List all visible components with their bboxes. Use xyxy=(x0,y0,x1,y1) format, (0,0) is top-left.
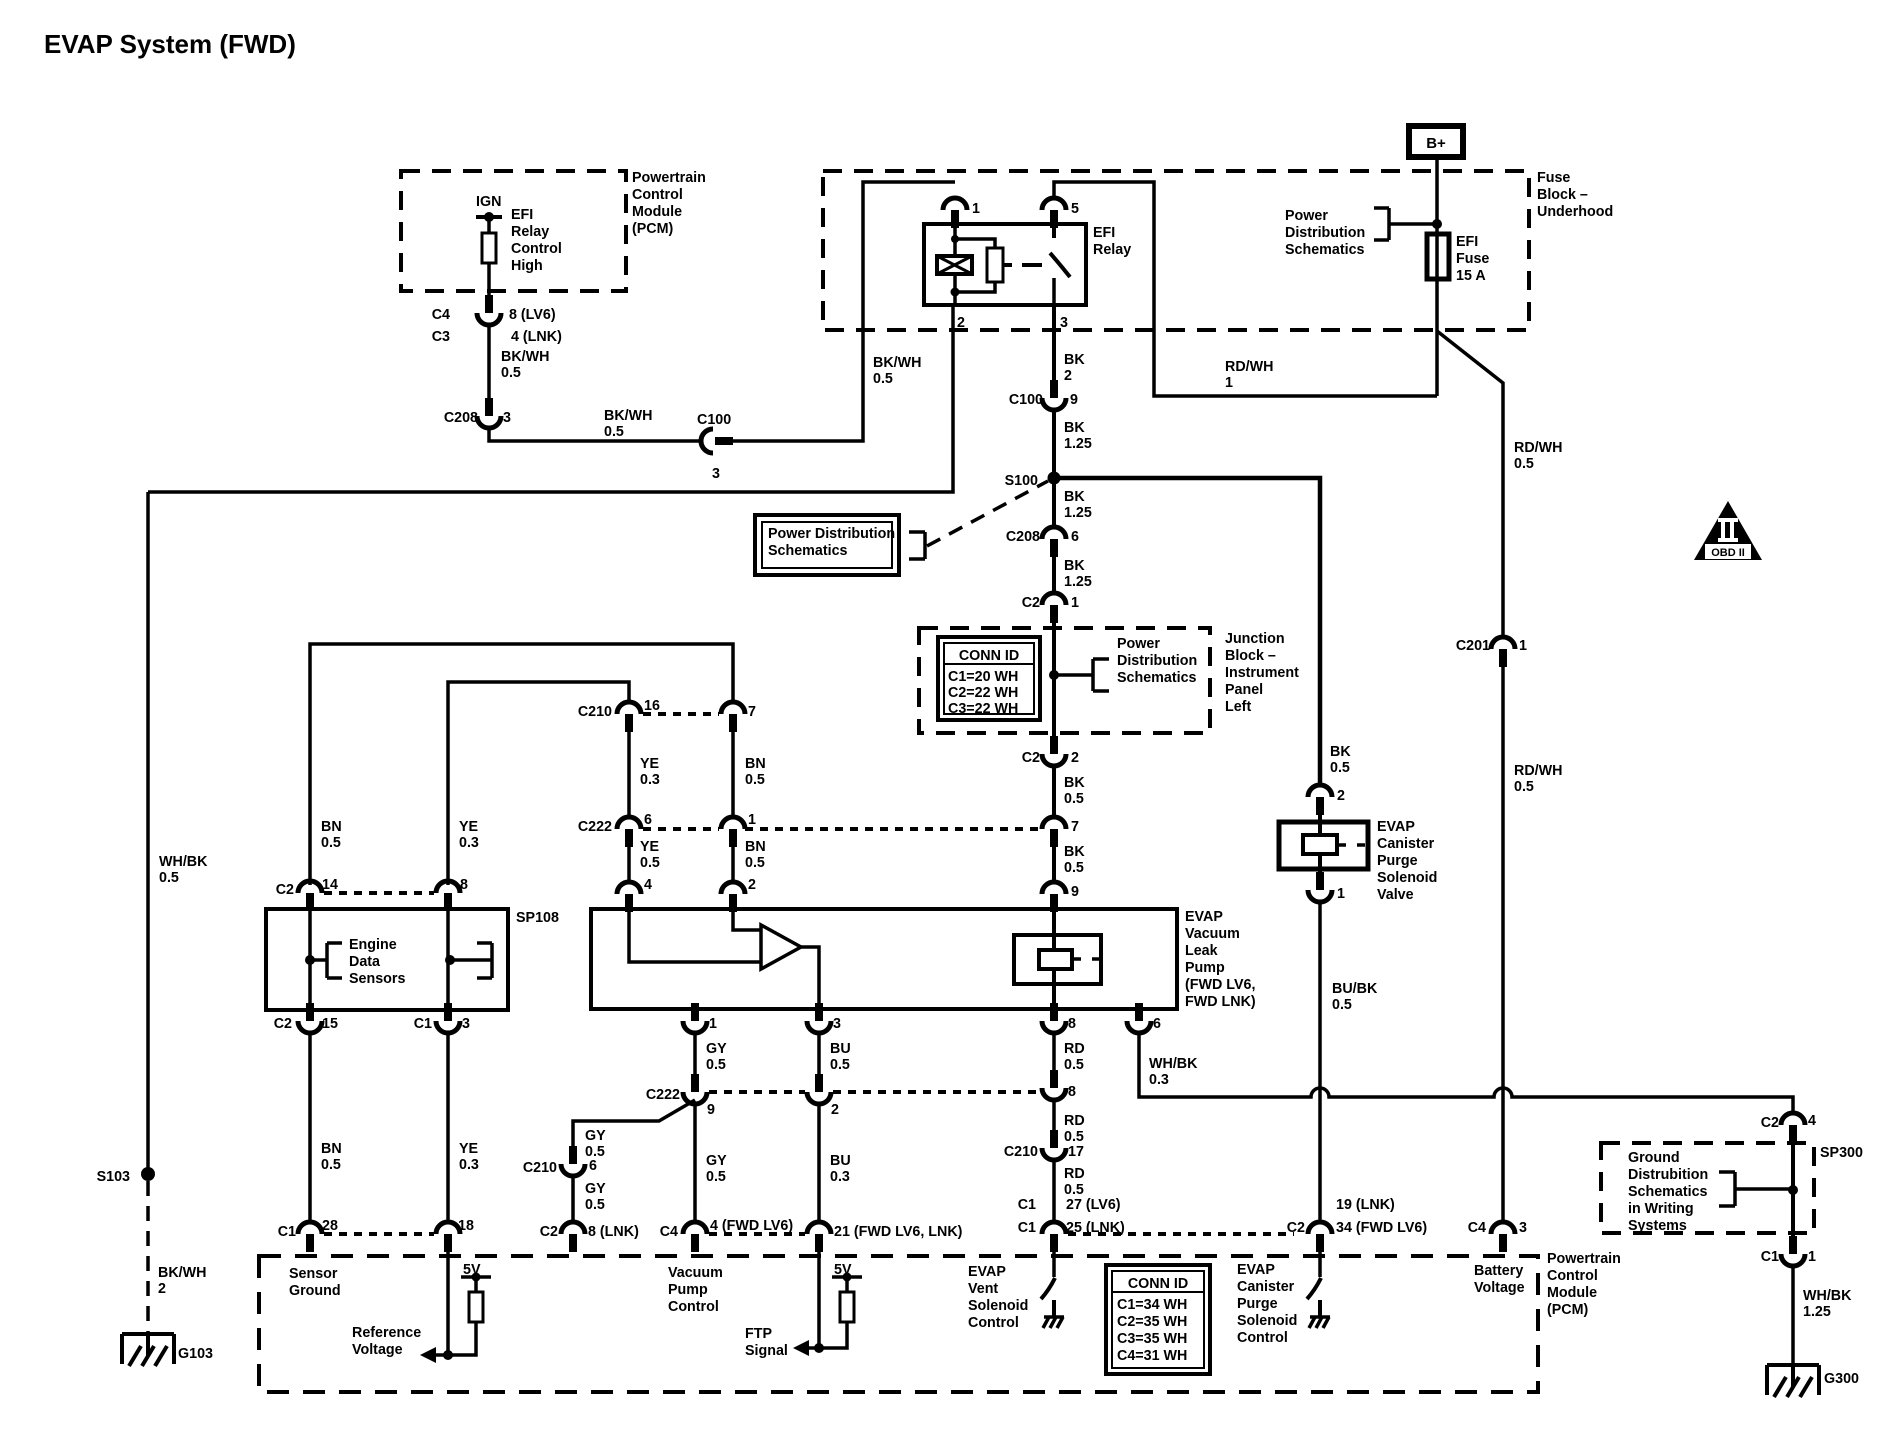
connector C2 pin 4 xyxy=(1781,1113,1805,1143)
svg-text:2: 2 xyxy=(748,877,756,893)
svg-text:GY0.5: GY0.5 xyxy=(706,1041,727,1073)
vent solenoid driver blade xyxy=(1041,1278,1055,1299)
vent solenoid driver ground xyxy=(1043,1300,1064,1328)
svg-text:4: 4 xyxy=(1808,1113,1816,1129)
svg-text:C2: C2 xyxy=(1022,595,1040,611)
wire amplifier out to pin 3 xyxy=(801,947,819,1003)
wire BN through box xyxy=(308,911,312,1003)
svg-text:C201: C201 xyxy=(1456,638,1490,654)
wire pin 2 to amplifier xyxy=(733,911,761,930)
wire pin 18 to reference voltage xyxy=(446,1252,450,1355)
arrow FTP signal xyxy=(793,1340,809,1356)
PCM (top-left) dashed box xyxy=(401,171,626,291)
svg-text:GY0.5: GY0.5 xyxy=(585,1181,606,1213)
purge solenoid driver blade xyxy=(1307,1278,1321,1299)
svg-text:C210: C210 xyxy=(523,1160,557,1176)
connector C2 pin 8 LNK xyxy=(561,1222,585,1252)
node SP300 xyxy=(1788,1185,1798,1195)
splice S103 xyxy=(141,1167,155,1181)
pump solenoid coil xyxy=(1039,950,1072,969)
svg-text:6: 6 xyxy=(1153,1016,1161,1032)
purge solenoid driver ground xyxy=(1309,1300,1330,1328)
connector C222 pin 1 xyxy=(721,817,745,847)
PCM (bottom) dashed box xyxy=(259,1256,1538,1392)
connector relay pin 1 xyxy=(943,198,967,228)
svg-text:3: 3 xyxy=(1519,1220,1527,1236)
connector pump pin 6 xyxy=(1127,1003,1151,1033)
wire S100 down xyxy=(1052,478,1056,527)
svg-text:C2: C2 xyxy=(1287,1220,1305,1236)
ground G103 xyxy=(122,1334,174,1366)
wire YE 0.3 lower xyxy=(446,1033,450,1222)
wire top horizontal BN xyxy=(310,644,733,885)
svg-text:C2: C2 xyxy=(276,882,294,898)
purge solenoid driver stub xyxy=(1318,1252,1322,1277)
wire through pump solenoid xyxy=(1052,912,1056,1005)
svg-text:CONN ID: CONN ID xyxy=(1128,1276,1188,1292)
EFI relay box xyxy=(924,224,1086,305)
svg-text:BK0.5: BK0.5 xyxy=(1064,775,1085,807)
svg-text:C1: C1 xyxy=(414,1016,432,1032)
connector C100 pin 9 xyxy=(1042,380,1066,410)
node on B+ wire xyxy=(1432,219,1442,229)
svg-text:C2: C2 xyxy=(540,1224,558,1240)
svg-text:3: 3 xyxy=(712,466,720,482)
bracket SP300 xyxy=(1719,1172,1789,1206)
svg-text:1: 1 xyxy=(748,812,756,828)
svg-text:C1=20 WHC2=22 WHC3=22 WH: C1=20 WHC2=22 WHC3=22 WH xyxy=(948,669,1018,717)
resistor EFI Relay Control High driver xyxy=(482,233,496,263)
ground G300 xyxy=(1767,1365,1819,1397)
connector C222 pin 2 xyxy=(807,1074,831,1104)
EVAP canister purge solenoid valve box xyxy=(1279,822,1368,869)
svg-text:5: 5 xyxy=(1071,201,1079,217)
dashed wire bracket to S100 xyxy=(927,481,1048,546)
wire reference voltage xyxy=(434,1322,476,1355)
wire RD 0.5 lower xyxy=(1052,1160,1056,1222)
wire B+ to fuse xyxy=(1435,160,1439,234)
svg-text:2: 2 xyxy=(1071,750,1079,766)
svg-text:C100: C100 xyxy=(1009,392,1043,408)
Engine Data Sensors box xyxy=(266,909,508,1010)
splice S100 xyxy=(1048,472,1061,485)
connector C2 pin 2 xyxy=(1042,736,1066,766)
svg-text:C208: C208 xyxy=(1006,529,1040,545)
svg-text:1: 1 xyxy=(709,1016,717,1032)
svg-text:C100: C100 xyxy=(697,412,731,428)
wire FTP signal xyxy=(807,1322,847,1348)
node BN xyxy=(305,955,315,965)
connector purge valve pin 2 xyxy=(1308,785,1332,815)
wire RD 0.5 xyxy=(1052,1033,1056,1070)
wire YE 0.5 xyxy=(627,847,631,882)
dashed connector row C210 xyxy=(643,712,719,716)
wire second horizontal YE xyxy=(448,682,629,885)
svg-text:BN0.5: BN0.5 xyxy=(745,756,766,788)
wire BU/BK 0.5 xyxy=(1318,902,1322,1222)
svg-text:BN0.5: BN0.5 xyxy=(321,819,342,851)
wire BK 0.5 xyxy=(1052,766,1056,817)
purge valve contact ticks xyxy=(1337,843,1365,847)
relay coil xyxy=(937,256,972,274)
wire pump pin 6 WH/BK 0.3 xyxy=(1137,1033,1141,1095)
svg-text:7: 7 xyxy=(748,704,756,720)
svg-text:G300: G300 xyxy=(1824,1371,1859,1387)
svg-text:9: 9 xyxy=(1070,392,1078,408)
wire YE through box xyxy=(446,911,450,1003)
OBD II symbol xyxy=(1694,501,1762,560)
svg-text:1: 1 xyxy=(1808,1249,1816,1265)
connector C2 pin 19/34 xyxy=(1308,1222,1332,1252)
svg-text:3: 3 xyxy=(833,1016,841,1032)
node YE xyxy=(445,955,455,965)
wire coil column xyxy=(953,228,957,305)
connector C210 pin 16 xyxy=(617,702,641,732)
svg-text:9: 9 xyxy=(1071,884,1079,900)
svg-text:C1=34 WHC2=35 WHC3=35 WHC4=31: C1=34 WHC2=35 WHC3=35 WHC4=31 WH xyxy=(1117,1297,1187,1364)
svg-text:8: 8 xyxy=(1068,1016,1076,1032)
svg-text:16: 16 xyxy=(644,698,660,714)
connector C2 pin 15 xyxy=(298,1003,322,1033)
wire pin 21 to FTP signal xyxy=(817,1252,821,1348)
junction node xyxy=(1049,670,1059,680)
wire diagonal to RD/WH 0.5 xyxy=(1437,331,1503,639)
svg-text:15: 15 xyxy=(322,1016,338,1032)
svg-text:YE0.3: YE0.3 xyxy=(459,819,479,851)
wire IGN to resistor xyxy=(487,217,491,233)
node FTP signal xyxy=(814,1343,824,1353)
wire C100 to relay pin 1 branch xyxy=(733,182,955,441)
connector C222 pin 9 xyxy=(683,1074,707,1104)
B+ box xyxy=(1409,126,1463,157)
svg-text:C2: C2 xyxy=(1761,1115,1779,1131)
connector pump pin 8 xyxy=(1042,1003,1066,1033)
svg-text:C208: C208 xyxy=(444,410,478,426)
svg-text:2: 2 xyxy=(831,1102,839,1118)
svg-text:C222: C222 xyxy=(646,1087,680,1103)
wire pin2 down to S103 xyxy=(146,492,150,1168)
relay actuator dashes xyxy=(1003,263,1042,267)
svg-text:BU0.5: BU0.5 xyxy=(830,1041,851,1073)
wire C208 to C100 xyxy=(489,428,701,441)
purge valve coil xyxy=(1303,835,1337,854)
connector C2 pin 14 xyxy=(298,881,322,911)
dashed connector row C2 xyxy=(324,891,434,895)
wire through purge valve xyxy=(1318,815,1322,872)
wire pin6 horizontal to SP300 xyxy=(1139,1088,1793,1113)
svg-text:18: 18 xyxy=(458,1218,474,1234)
relay switch blade xyxy=(1050,228,1070,277)
connector pump pin 4 xyxy=(617,882,641,912)
connector C208 pin 3 xyxy=(477,398,501,428)
connector C201 pin 1 xyxy=(1491,637,1515,667)
svg-text:SP300: SP300 xyxy=(1820,1145,1863,1161)
bracket Power Distribution Schematics xyxy=(1374,208,1437,240)
svg-text:19 (LNK): 19 (LNK) xyxy=(1336,1197,1395,1213)
resistor 5V left xyxy=(469,1292,483,1322)
svg-text:YE0.5: YE0.5 xyxy=(640,839,660,871)
svg-text:BK0.5: BK0.5 xyxy=(1330,744,1351,776)
wire diagonal C222-9 to C210-6 xyxy=(573,1100,695,1147)
svg-text:4: 4 xyxy=(644,877,652,893)
svg-text:8: 8 xyxy=(460,877,468,893)
pump solenoid outer xyxy=(1014,935,1101,984)
5V supply right xyxy=(832,1277,862,1292)
wire relay pin 2 down and left xyxy=(148,305,953,492)
connector pump pin 1 xyxy=(683,1003,707,1033)
svg-text:8: 8 xyxy=(1068,1084,1076,1100)
resistor 5V right xyxy=(840,1292,854,1322)
svg-text:6: 6 xyxy=(1071,529,1079,545)
svg-text:2: 2 xyxy=(1337,788,1345,804)
svg-text:6: 6 xyxy=(644,812,652,828)
connector C4 pin 4 xyxy=(683,1222,707,1252)
connector C100 pin 3 xyxy=(701,429,733,453)
svg-text:1: 1 xyxy=(1337,886,1345,902)
svg-text:GY0.5: GY0.5 xyxy=(706,1153,727,1185)
wire GY 0.5 xyxy=(693,1033,697,1074)
svg-text:BN0.5: BN0.5 xyxy=(321,1141,342,1173)
CONN ID table bottom xyxy=(1106,1265,1210,1374)
svg-text:B+: B+ xyxy=(1426,135,1446,152)
bracket left xyxy=(310,943,342,978)
wire BK 0.5 xyxy=(1052,847,1056,882)
wire WH/BK 1.25 xyxy=(1791,1266,1795,1364)
connector pump pin 3 xyxy=(807,1003,831,1033)
connector C2 pin 8 xyxy=(436,881,460,911)
svg-text:3: 3 xyxy=(503,410,511,426)
svg-text:C1: C1 xyxy=(1018,1220,1036,1236)
svg-text:BK0.5: BK0.5 xyxy=(1064,844,1085,876)
wire BN 0.5 xyxy=(731,847,735,882)
wire BN 0.5 xyxy=(731,732,735,817)
svg-text:RD0.5: RD0.5 xyxy=(1064,1113,1085,1145)
connector C1 pin 1 xyxy=(1781,1236,1805,1266)
svg-text:S100: S100 xyxy=(1005,473,1038,489)
svg-text:YE0.3: YE0.3 xyxy=(459,1141,479,1173)
connector C222 pin 7 xyxy=(1042,817,1066,847)
svg-text:3: 3 xyxy=(462,1016,470,1032)
wire GY 0.5 lower xyxy=(571,1176,575,1222)
svg-text:G103: G103 xyxy=(178,1346,213,1362)
svg-text:5V: 5V xyxy=(463,1262,481,1278)
connector C4/C3 pin 8 xyxy=(477,295,501,325)
dashed wire BK/WH 2 xyxy=(146,1181,150,1333)
svg-text:28: 28 xyxy=(322,1218,338,1234)
wire BK 1.25 xyxy=(1052,557,1056,593)
svg-text:S103: S103 xyxy=(97,1169,130,1185)
wire BK/WH 0.5 xyxy=(487,325,491,398)
svg-text:C2: C2 xyxy=(1022,750,1040,766)
dashed connector row C222 xyxy=(643,827,1040,831)
connector C1 pin 3 xyxy=(436,1003,460,1033)
svg-text:BU0.3: BU0.3 xyxy=(830,1153,851,1185)
svg-text:5V: 5V xyxy=(834,1262,852,1278)
connector C1 pin 18 xyxy=(436,1222,460,1252)
connector C210 pin 7 xyxy=(721,702,745,732)
svg-text:C4: C4 xyxy=(660,1224,678,1240)
CONN ID table xyxy=(938,637,1040,720)
connector C4 pin 3 xyxy=(1491,1222,1515,1252)
relay coil node xyxy=(951,235,959,243)
connector C208 pin 6 xyxy=(1042,527,1066,557)
vent solenoid driver stub xyxy=(1052,1252,1056,1277)
svg-text:C210: C210 xyxy=(578,704,612,720)
wire through junction block xyxy=(1052,623,1056,736)
svg-text:1: 1 xyxy=(972,201,980,217)
connector C210 pin 17 xyxy=(1042,1130,1066,1160)
svg-text:7: 7 xyxy=(1071,819,1079,835)
svg-text:OBD II: OBD II xyxy=(1711,547,1745,559)
Junction Block dashed box xyxy=(919,628,1210,733)
svg-text:34 (FWD LV6): 34 (FWD LV6) xyxy=(1336,1220,1427,1236)
connector pump pin 2 xyxy=(721,882,745,912)
svg-text:21 (FWD LV6, LNK): 21 (FWD LV6, LNK) xyxy=(834,1224,963,1240)
connector pin 21 xyxy=(807,1222,831,1252)
svg-text:C1: C1 xyxy=(1761,1249,1779,1265)
5V supply left xyxy=(461,1277,491,1292)
connector C1 pin 28 xyxy=(298,1222,322,1252)
pump solenoid contact ticks xyxy=(1072,957,1101,961)
fuse EFI 15A xyxy=(1427,234,1449,279)
svg-text:C1: C1 xyxy=(1018,1197,1036,1213)
arrow reference voltage xyxy=(420,1347,436,1363)
IGN feed node xyxy=(476,215,502,219)
SP300 dashed box xyxy=(1601,1143,1814,1233)
wire YE 0.3 xyxy=(627,732,631,817)
svg-text:17: 17 xyxy=(1068,1144,1084,1160)
Fuse Block Underhood dashed box xyxy=(823,171,1529,330)
svg-text:EVAP System (FWD): EVAP System (FWD) xyxy=(44,29,296,59)
wire through SP300 xyxy=(1791,1143,1795,1236)
connector C1 pin 25 xyxy=(1042,1222,1066,1252)
wire pin 4 to amplifier xyxy=(629,911,761,962)
connector purge valve pin 1 xyxy=(1308,872,1332,902)
svg-text:GY0.5: GY0.5 xyxy=(585,1128,606,1160)
dashed connector row C4-21 xyxy=(709,1232,805,1236)
svg-text:6: 6 xyxy=(589,1158,597,1174)
svg-text:4 (FWD LV6): 4 (FWD LV6) xyxy=(710,1218,793,1234)
wire resistor to C4 connector xyxy=(487,263,491,295)
connector C222 pin 8 xyxy=(1042,1070,1066,1100)
svg-text:IGN: IGN xyxy=(476,194,501,210)
relay resistor xyxy=(987,248,1003,282)
connector C2 pin 1 xyxy=(1042,593,1066,623)
svg-text:C210: C210 xyxy=(1004,1144,1038,1160)
wire relay pin 3 down xyxy=(1052,305,1056,380)
connector pump pin 9 xyxy=(1042,882,1066,912)
connector relay pin 5 xyxy=(1042,198,1066,228)
node reference voltage xyxy=(443,1350,453,1360)
wire S100 to purge solenoid column xyxy=(1054,478,1320,787)
bracket to S100 xyxy=(909,532,925,559)
connector C210 pin 6 xyxy=(561,1146,585,1176)
wire BU 0.5 xyxy=(817,1033,821,1074)
connector C222 pin 6 xyxy=(617,817,641,847)
dashed connector row C1-C2 xyxy=(1068,1232,1294,1236)
svg-text:1: 1 xyxy=(1519,638,1527,654)
wire fuse down to RD/WH 1 corner xyxy=(1435,279,1439,396)
wire RD 0.5 mid xyxy=(1052,1100,1056,1130)
svg-text:9: 9 xyxy=(707,1102,715,1118)
bracket Power Distribution Schematics xyxy=(1054,659,1109,691)
wire GY 0.5 center xyxy=(693,1104,697,1222)
svg-text:1: 1 xyxy=(1071,595,1079,611)
wire BN 0.5 lower xyxy=(308,1033,312,1222)
EVAP Vacuum Leak Pump box xyxy=(591,909,1177,1009)
bracket right xyxy=(450,943,492,978)
wire BU 0.3 xyxy=(817,1104,821,1222)
svg-text:SP108: SP108 xyxy=(516,910,559,926)
Power Distribution Schematics box xyxy=(755,515,899,575)
dashed connector row C1 xyxy=(324,1232,434,1236)
svg-text:14: 14 xyxy=(322,877,338,893)
dashed connector row C222 xyxy=(709,1090,1040,1094)
svg-text:C1: C1 xyxy=(278,1224,296,1240)
amplifier triangle xyxy=(761,925,801,969)
relay fixed contact xyxy=(1052,278,1056,305)
svg-text:BatteryVoltage: BatteryVoltage xyxy=(1474,1263,1525,1296)
svg-text:RD0.5: RD0.5 xyxy=(1064,1041,1085,1073)
svg-text:CONN ID: CONN ID xyxy=(959,648,1019,664)
svg-text:SensorGround: SensorGround xyxy=(289,1266,341,1299)
relay coil bottom node xyxy=(951,288,960,297)
svg-text:C2: C2 xyxy=(274,1016,292,1032)
svg-text:3: 3 xyxy=(1060,315,1068,331)
svg-text:C4: C4 xyxy=(1468,1220,1486,1236)
wire relay pin 5 to fuse xyxy=(1054,182,1437,396)
svg-text:C222: C222 xyxy=(578,819,612,835)
svg-text:YE0.3: YE0.3 xyxy=(640,756,660,788)
svg-text:2: 2 xyxy=(957,315,965,331)
svg-text:RD0.5: RD0.5 xyxy=(1064,1166,1085,1198)
svg-text:8 (LNK): 8 (LNK) xyxy=(588,1224,639,1240)
wire BK 1.25 xyxy=(1052,410,1056,474)
svg-text:BN0.5: BN0.5 xyxy=(745,839,766,871)
svg-text:27 (LV6): 27 (LV6) xyxy=(1066,1197,1121,1213)
wire RD/WH 0.5 lower xyxy=(1501,667,1505,1222)
relay resistor loop xyxy=(955,239,995,292)
